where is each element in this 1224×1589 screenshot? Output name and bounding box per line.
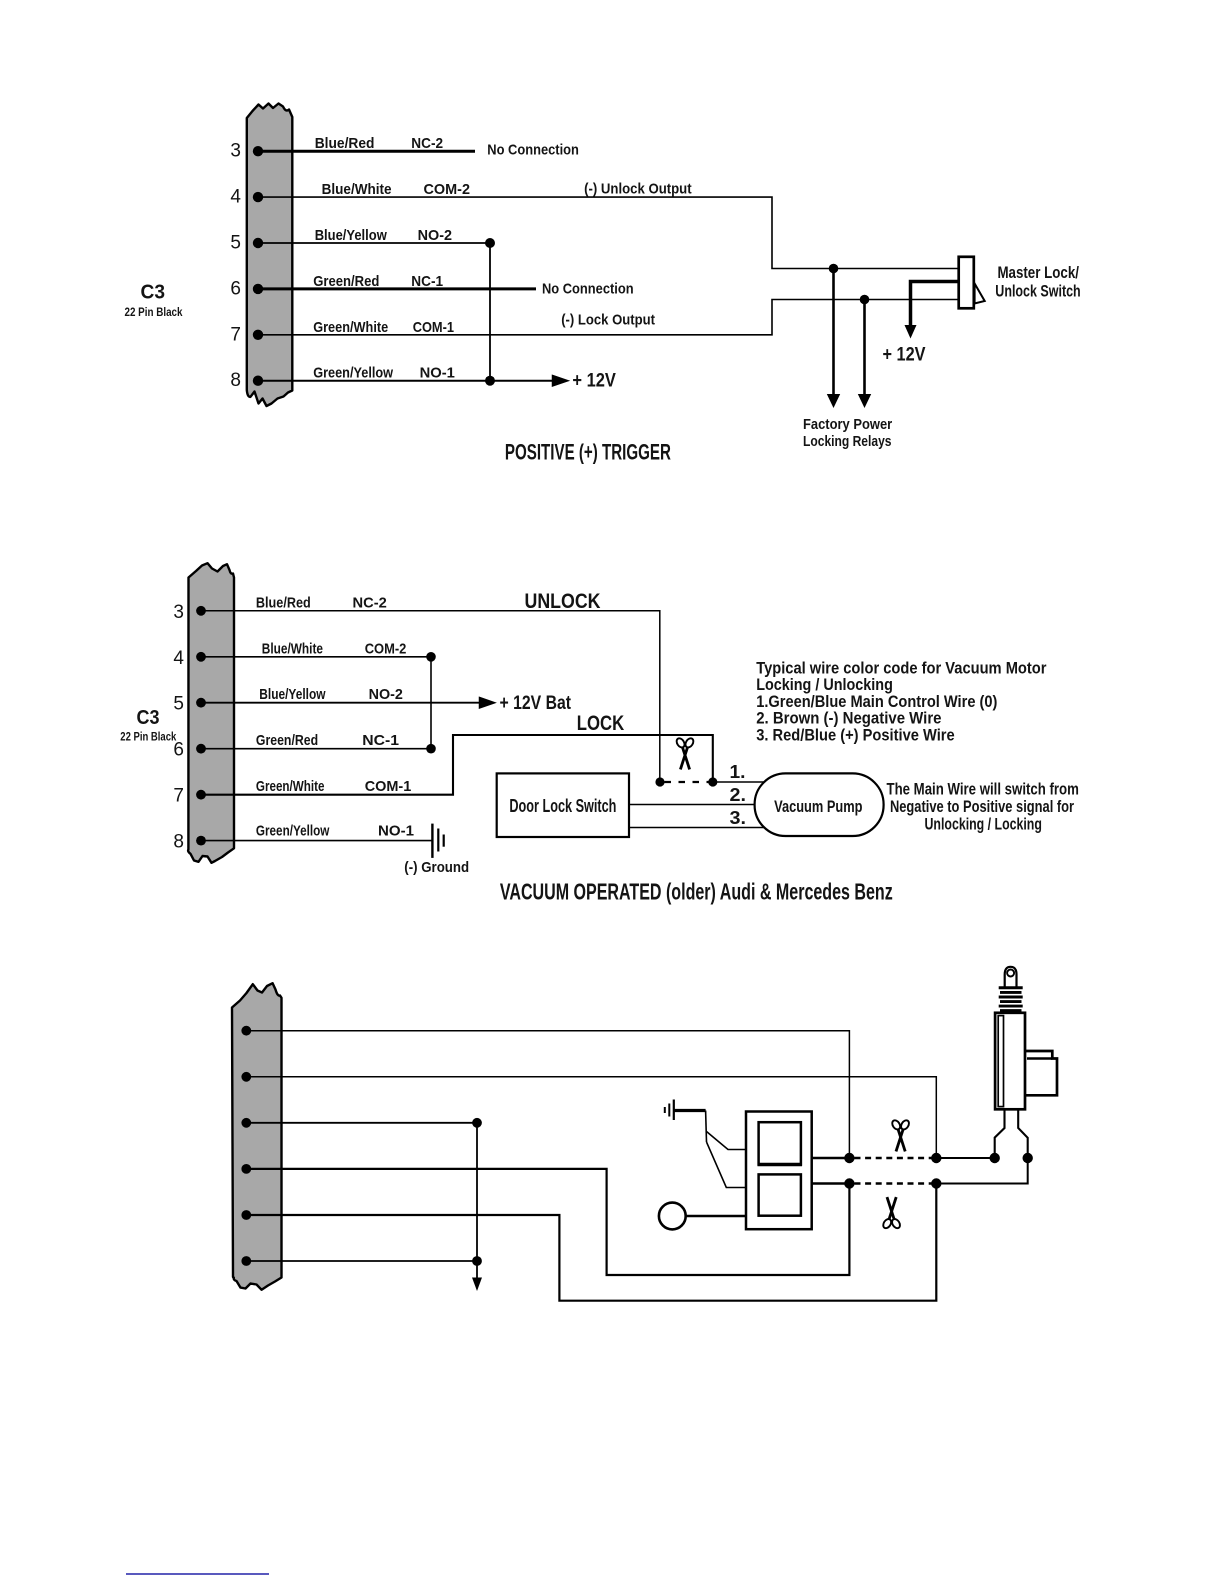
pin B (bottom connector) [241, 1072, 251, 1082]
arrowhead +12V feed [905, 325, 917, 339]
pin 7 (top C3) [230, 324, 263, 345]
junction dot upper cut right [931, 1153, 941, 1163]
svg-text:Door Lock Switch: Door Lock Switch [509, 796, 616, 816]
arrowhead +12V (pin8) [553, 376, 568, 387]
actuator body [995, 1013, 1025, 1110]
svg-text:22 Pin Black: 22 Pin Black [125, 305, 183, 319]
svg-text:3: 3 [173, 602, 184, 623]
actuator side step [1025, 1051, 1057, 1095]
wire pin4 Blue/White COM-2 [201, 656, 431, 658]
svg-text:Negative to Positive signal fo: Negative to Positive signal for [890, 797, 1074, 816]
svg-text:Vacuum Pump: Vacuum Pump [774, 797, 862, 816]
junction dot upper cut left [844, 1153, 854, 1163]
label Factory Power Locking Relays [803, 416, 892, 450]
button circle (bottom switch) [659, 1203, 686, 1230]
switch box upper contact [759, 1122, 801, 1164]
pin 6 (top C3) [230, 278, 263, 299]
wire pin7 Green/White COM-1 lock line [201, 735, 713, 795]
pin 8 (middle C3) [173, 832, 205, 853]
wire link NO-2 to NO-1 (vertical) [489, 243, 491, 381]
connector C3 (top, 22-pin black, torn ends) [247, 104, 292, 407]
actuator body inner wall [998, 1016, 1003, 1107]
switch box (bottom) [746, 1112, 812, 1230]
pin 4 (top C3) [230, 187, 263, 208]
switch rocker triangle [975, 284, 985, 304]
switch box upper contact thick base [758, 1163, 803, 1167]
switch lever wires [706, 1111, 746, 1188]
svg-text:C3: C3 [137, 707, 160, 729]
svg-text:Master Lock/: Master Lock/ [997, 264, 1079, 282]
junction dot lower cut left [844, 1178, 854, 1188]
svg-text:NO-2: NO-2 [369, 686, 403, 703]
wire 3 to vacuum pump [629, 827, 766, 829]
wire pin4 Blue/White COM-2 to switch (unlock output) [258, 197, 958, 268]
svg-text:COM-1: COM-1 [413, 319, 454, 336]
arrowhead +12V Bat [480, 698, 495, 709]
svg-text:6: 6 [173, 740, 184, 761]
svg-text:(-) Unlock Output: (-) Unlock Output [584, 181, 692, 198]
svg-text:NO-2: NO-2 [418, 227, 452, 244]
scissors (middle diagram) [675, 737, 695, 770]
upper cut wire: switch to actuator [812, 1157, 995, 1159]
pin 5 (middle C3) [173, 694, 205, 715]
svg-text:Green/Red: Green/Red [256, 732, 318, 749]
wire pinB to upper cut (actuator side top) [246, 1077, 936, 1158]
wire pin7 Green/White COM-1 to switch (lock output) [258, 300, 958, 335]
connector (bottom, torn ends) [232, 983, 282, 1290]
svg-text:8: 8 [173, 832, 184, 853]
svg-text:Locking Relays: Locking Relays [803, 433, 892, 450]
actuator knob [1005, 967, 1017, 987]
svg-text:2.: 2. [730, 785, 747, 805]
svg-text:(-) Ground: (-) Ground [404, 859, 469, 876]
wire pin6 Green/Red NC-1 (no connection stub) [258, 287, 536, 290]
junction dot NO-2 [485, 238, 495, 248]
svg-text:The Main Wire will switch from: The Main Wire will switch from [887, 779, 1079, 798]
pin 3 (middle C3) [173, 602, 205, 623]
text block: the main wire will switch [887, 779, 1079, 833]
svg-text:Blue/Yellow: Blue/Yellow [315, 227, 387, 244]
wire button to switch box [686, 1215, 746, 1217]
wire pin3 Blue/Red NC-2 unlock line [201, 611, 660, 782]
svg-text:Blue/Red: Blue/Red [256, 594, 311, 611]
switch body: master lock/unlock switch [959, 257, 974, 309]
svg-text:22 Pin Black: 22 Pin Black [120, 730, 176, 744]
svg-text:7: 7 [230, 324, 241, 345]
actuator stem and legs [995, 1110, 1005, 1159]
svg-text:Green/White: Green/White [256, 778, 325, 795]
wire pinD lower route to lower cut left [246, 1169, 849, 1275]
svg-text:3. Red/Blue (+) Positive Wire: 3. Red/Blue (+) Positive Wire [756, 725, 955, 744]
wire pinE lower route to lower cut right [246, 1184, 936, 1301]
arrowhead center vertical [472, 1278, 482, 1292]
junction dot NC-1 [426, 744, 436, 754]
svg-text:NC-2: NC-2 [353, 594, 387, 611]
junction dot actuator left leg [990, 1153, 1000, 1163]
wire link COM-2 to NC-1 (vertical) [430, 657, 432, 749]
svg-text:NC-2: NC-2 [411, 135, 443, 152]
scissors lower (bottom diagram, flipped) [882, 1197, 902, 1230]
pin D (bottom connector) [241, 1164, 251, 1174]
label Master Lock/ Unlock Switch [995, 264, 1080, 301]
pin 4 (middle C3) [173, 648, 205, 669]
svg-text:NO-1: NO-1 [420, 365, 455, 382]
pin 5 (top C3) [230, 233, 263, 254]
pin 6 (middle C3) [173, 740, 205, 761]
svg-text:Blue/Red: Blue/Red [315, 135, 375, 152]
svg-text:Blue/White: Blue/White [262, 640, 323, 657]
svg-text:NO-1: NO-1 [378, 823, 414, 840]
svg-text:5: 5 [230, 233, 241, 254]
svg-text:POSITIVE (+) TRIGGER: POSITIVE (+) TRIGGER [505, 440, 671, 465]
svg-text:C3: C3 [141, 282, 166, 304]
svg-text:Unlocking / Locking: Unlocking / Locking [925, 814, 1042, 833]
svg-text:LOCK: LOCK [577, 711, 625, 735]
pin A (bottom connector) [241, 1026, 251, 1036]
ground symbol (bottom switch) [665, 1100, 674, 1121]
svg-text:COM-2: COM-2 [424, 181, 471, 198]
wire pin3 Blue/Red NC-2 (no connection stub) [258, 150, 475, 153]
junction dot lock line [860, 295, 870, 305]
svg-text:(-) Lock Output: (-) Lock Output [561, 312, 655, 329]
svg-text:4: 4 [230, 187, 241, 208]
wire relay drop 1 (from unlock junction) [832, 269, 835, 397]
actuator threaded neck [999, 986, 1023, 989]
junction dot lock cut (right) [708, 777, 717, 786]
junction dot lower cut right [931, 1178, 941, 1188]
pin E (bottom connector) [241, 1210, 251, 1220]
lower cut wire: switch to actuator [812, 1158, 1028, 1184]
arrowhead relay drop 2 [858, 394, 871, 408]
svg-text:VACUUM OPERATED (older) Audi: VACUUM OPERATED (older) Audi & Mercedes … [500, 879, 893, 905]
junction dot pinF vertical [472, 1256, 482, 1266]
junction dot unlock cut (left) [655, 777, 664, 786]
svg-text:7: 7 [173, 786, 184, 807]
scissors upper (bottom diagram) [891, 1119, 911, 1152]
wire pin8 Green/Yellow NO-1 to ground [201, 840, 432, 842]
dashed cut wire (middle diagram) [665, 781, 709, 783]
wire pinF to center junction [246, 1260, 477, 1262]
wire 1 to vacuum pump [713, 781, 766, 783]
junction dot actuator right leg [1022, 1153, 1032, 1163]
pin F (bottom connector) [241, 1256, 251, 1266]
junction dot NO-1 [485, 376, 495, 386]
wire relay drop 2 (from lock junction) [863, 300, 866, 397]
svg-text:3: 3 [230, 141, 241, 162]
wire +12V feed to switch [911, 282, 958, 328]
wire pin5 Blue/Yellow NO-2 to +12V Bat [201, 702, 482, 704]
wire pin6 Green/Red NC-1 [201, 748, 431, 750]
junction dot unlock line [829, 264, 839, 274]
junction dot pinC vertical top [472, 1118, 482, 1128]
svg-text:COM-2: COM-2 [365, 640, 407, 657]
svg-text:UNLOCK: UNLOCK [525, 589, 601, 613]
box Door Lock Switch [497, 773, 629, 837]
pin C (bottom connector) [241, 1118, 251, 1128]
svg-text:+ 12V: + 12V [572, 370, 616, 391]
svg-text:COM-1: COM-1 [365, 778, 412, 795]
svg-text:6: 6 [230, 278, 241, 299]
svg-text:Blue/White: Blue/White [322, 181, 392, 198]
wire pin8 Green/Yellow NO-1 to +12V arrow [258, 380, 554, 382]
svg-text:5: 5 [173, 694, 184, 715]
svg-text:Blue/Yellow: Blue/Yellow [259, 686, 325, 703]
wire pinA to upper cut (switch side top) [246, 1031, 849, 1158]
footer blue line [126, 1573, 269, 1575]
svg-text:+ 12V: + 12V [883, 345, 926, 366]
svg-text:Unlock Switch: Unlock Switch [995, 283, 1080, 301]
svg-text:Green/Yellow: Green/Yellow [256, 823, 330, 840]
connector C3 (middle, 22-pin black, torn ends) [188, 563, 234, 863]
svg-text:Green/Red: Green/Red [313, 273, 379, 290]
svg-text:4: 4 [173, 648, 184, 669]
svg-text:No Connection: No Connection [542, 281, 634, 298]
pin 8 (top C3) [230, 370, 263, 391]
svg-text:1.: 1. [730, 762, 746, 782]
svg-text:No Connection: No Connection [487, 142, 579, 159]
svg-text:NC-1: NC-1 [362, 732, 399, 749]
pin 3 (top C3) [230, 141, 263, 162]
arrowhead relay drop 1 [827, 394, 840, 408]
door lock actuator [995, 967, 1057, 1158]
svg-text:NC-1: NC-1 [411, 273, 443, 290]
svg-text:8: 8 [230, 370, 241, 391]
ground symbol (middle) [432, 824, 443, 858]
wire 2 to vacuum pump [629, 804, 766, 806]
wire pinC to center junction [246, 1122, 477, 1124]
junction dot COM-2 [426, 652, 436, 662]
svg-text:+ 12V Bat: + 12V Bat [500, 693, 572, 714]
ground feed line (bottom switch) [674, 1109, 706, 1112]
text block: typical wire color code [756, 659, 1047, 745]
svg-text:Green/White: Green/White [313, 319, 388, 336]
svg-text:3.: 3. [730, 808, 747, 828]
wire center vertical with down arrow [476, 1123, 478, 1279]
vacuum pump body (stadium) [755, 773, 884, 836]
pin 7 (middle C3) [173, 786, 205, 807]
wire pin5 Blue/Yellow NO-2 [258, 242, 490, 244]
svg-text:Green/Yellow: Green/Yellow [313, 365, 393, 382]
switch box lower contact [759, 1174, 801, 1215]
svg-text:Factory Power: Factory Power [803, 416, 892, 433]
